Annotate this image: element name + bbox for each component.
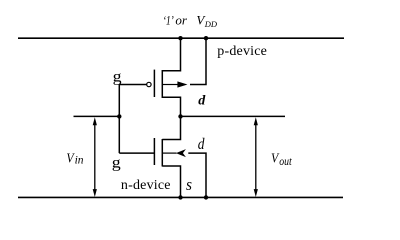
node input junction dot xyxy=(117,114,121,118)
svg-text:in: in xyxy=(75,155,84,167)
node VDD label '1' or VDD xyxy=(163,12,218,29)
measure arrow Vin (double-headed) xyxy=(93,117,97,197)
ground rail VSS xyxy=(18,196,343,198)
svg-text:g: g xyxy=(113,67,122,85)
wire PMOS gate lead xyxy=(119,84,146,86)
label Vout xyxy=(271,150,293,169)
wire PMOS source to VDD xyxy=(162,38,180,71)
transistor Q2 n-device xyxy=(154,138,186,167)
junction dot NMOS bulk on ground rail xyxy=(204,195,208,199)
svg-text:or: or xyxy=(175,12,188,27)
wire PMOS bulk to VDD xyxy=(190,38,206,84)
junction dot PMOS source on VDD rail xyxy=(178,36,182,40)
wire input vertical connecting both gates xyxy=(118,85,120,154)
svg-text:s: s xyxy=(186,176,192,194)
wire NMOS bulk to ground rail xyxy=(188,153,206,197)
wire NMOS gate lead xyxy=(119,152,154,154)
wire output line Vout xyxy=(181,115,286,117)
transistor Q1 p-device xyxy=(147,70,188,98)
wire PMOS drain to output node xyxy=(162,97,180,116)
svg-text:out: out xyxy=(279,155,292,168)
wire NMOS source to ground rail xyxy=(162,166,180,197)
svg-text:n-device: n-device xyxy=(121,178,171,193)
svg-text:d: d xyxy=(198,136,205,153)
svg-text:‘1’: ‘1’ xyxy=(163,14,174,28)
measure arrow Vout (double-headed) xyxy=(254,117,258,197)
wire NMOS drain to output node xyxy=(162,116,180,139)
junction dot PMOS bulk on VDD rail xyxy=(204,36,208,40)
svg-text:g: g xyxy=(112,153,121,171)
node output junction dot xyxy=(178,114,182,118)
wire input line Vin xyxy=(74,115,120,117)
svg-text:d: d xyxy=(198,93,206,108)
power rail VDD xyxy=(18,37,344,39)
junction dot NMOS source on ground rail xyxy=(178,195,182,199)
svg-text:DD: DD xyxy=(204,19,218,29)
svg-text:p-device: p-device xyxy=(217,44,267,59)
label Vin xyxy=(66,149,83,166)
